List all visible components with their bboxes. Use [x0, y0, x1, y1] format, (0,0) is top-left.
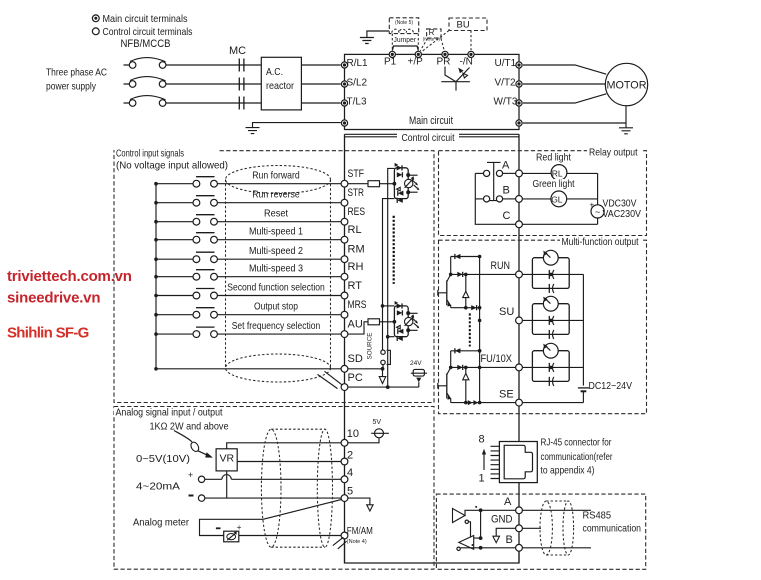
- svg-text:24V: 24V: [410, 360, 422, 367]
- legend main circuit terminal symbol: [92, 15, 99, 22]
- terminal STR: [341, 199, 348, 206]
- DC reactor option dashed box (Note 5): [389, 18, 418, 34]
- svg-text:Reset: Reset: [264, 208, 288, 220]
- svg-text:Analog signal input / output: Analog signal input / output: [116, 406, 223, 418]
- svg-text:Second function selection: Second function selection: [227, 281, 325, 293]
- dotted repetition line (outputs): [469, 313, 471, 346]
- svg-text:5V: 5V: [373, 419, 382, 426]
- label Control input signals: [115, 148, 229, 172]
- svg-text:RL: RL: [552, 168, 563, 178]
- svg-text:Jumper: Jumper: [394, 37, 417, 44]
- left common bus of input switches: [155, 184, 157, 369]
- contactor MC pole 3: [239, 97, 244, 110]
- wire RUN line to bus: [522, 273, 583, 275]
- terminal RL: [341, 236, 348, 243]
- wire common to SD: [154, 367, 341, 371]
- label Three phase AC power supply: [46, 67, 107, 93]
- wire phase R input: [124, 64, 341, 66]
- svg-text:MOTOR: MOTOR: [607, 80, 647, 92]
- svg-text:8: 8: [479, 434, 485, 446]
- wire V/T2 to motor: [523, 83, 606, 85]
- RJ-45 connector: [491, 442, 538, 483]
- analog meter symbol: [216, 523, 242, 542]
- svg-text:+: +: [590, 201, 595, 210]
- transistor FU/SE driver: output wire with diode: [449, 365, 516, 370]
- svg-text:Output stop: Output stop: [254, 301, 298, 313]
- meter loop wiring: [200, 500, 342, 536]
- svg-text:~: ~: [595, 207, 600, 217]
- relay left rail and C row: [475, 173, 515, 224]
- wire phase T input: [124, 102, 341, 104]
- svg-text:U/T1: U/T1: [495, 58, 517, 69]
- svg-text:power supply: power supply: [46, 81, 97, 93]
- svg-text:Three phase AC: Three phase AC: [46, 67, 107, 79]
- current input + terminal: [188, 470, 205, 482]
- source/sink jumper connector: [381, 350, 391, 369]
- common arrow at terminal 5: [348, 498, 373, 511]
- relay contact A side: [475, 170, 515, 176]
- terminal MRS: [341, 311, 348, 318]
- green lamp GL: [551, 191, 598, 207]
- transistor common bus: [478, 257, 482, 403]
- label Relay output: [587, 147, 641, 159]
- svg-text:-/N: -/N: [460, 56, 473, 67]
- relay supply source circle VDC30V/VAC230V: [590, 198, 642, 220]
- svg-text:triviettech.com.vn: triviettech.com.vn: [7, 268, 132, 285]
- terminal W/T3: [516, 100, 522, 106]
- svg-text:1: 1: [479, 473, 485, 485]
- svg-text:4~20mA: 4~20mA: [136, 480, 180, 492]
- terminal SE: [516, 399, 523, 406]
- label Multi-function output: [560, 236, 642, 248]
- A.C. reactor: [261, 57, 301, 110]
- label RS485 communication: [583, 510, 642, 535]
- svg-text:Control input signals: Control input signals: [116, 148, 184, 160]
- VR lower lead down to row 5: [226, 471, 228, 498]
- wire A external: [522, 509, 591, 511]
- brake resistor option dashed box R (Note 6): [423, 28, 441, 43]
- svg-text:(Note 5): (Note 5): [395, 20, 413, 26]
- svg-text:MRS: MRS: [348, 299, 367, 311]
- svg-text:VAC230V: VAC230V: [603, 208, 642, 220]
- terminal RT: [341, 292, 348, 299]
- svg-text:0~5V(10V): 0~5V(10V): [136, 453, 190, 465]
- svg-text:Relay output: Relay output: [589, 147, 638, 159]
- svg-text:RM: RM: [348, 244, 365, 256]
- wire SU line to bus: [522, 319, 583, 321]
- svg-text:RJ-45 connector for: RJ-45 connector for: [541, 437, 612, 449]
- terminal R/L1: [341, 62, 347, 68]
- relay load group FU: [532, 343, 569, 386]
- svg-text:Run reverse: Run reverse: [252, 189, 300, 201]
- RJ-45 pin labels: [479, 434, 487, 485]
- relay contact B side: [475, 196, 515, 202]
- jumper bar P1 to +/P: [392, 46, 418, 51]
- shielded cable ellipses (RS485): [540, 501, 574, 555]
- svg-text:GND: GND: [491, 513, 513, 525]
- terminal A (RS485): [516, 507, 523, 514]
- resistor on STF input: [348, 181, 395, 187]
- svg-text:R/L1: R/L1: [347, 58, 369, 69]
- wire bridge2 bottom to PC rail: [386, 335, 394, 339]
- wire A to red lamp: [522, 172, 551, 174]
- svg-text:BU: BU: [457, 20, 470, 31]
- svg-text:B: B: [506, 534, 513, 546]
- input switch RES (Reset): [154, 215, 341, 225]
- svg-text:P1: P1: [384, 56, 397, 67]
- svg-text:10: 10: [347, 428, 359, 440]
- wire FM/AM down to bottom rail: [344, 539, 346, 563]
- shield drain ribbon to FM/AM: [333, 537, 347, 549]
- multi-function output dashed box: [439, 240, 647, 414]
- battery DC12~24V: [578, 380, 632, 402]
- wire FU line to bus: [522, 366, 583, 368]
- control circuit box: [345, 134, 520, 563]
- svg-text:T/L3: T/L3: [347, 97, 367, 108]
- RS485 internal wiring: [472, 506, 483, 546]
- terminal 4: [341, 476, 348, 483]
- svg-text:DC12~24V: DC12~24V: [589, 380, 633, 392]
- wire GND external stub: [522, 527, 541, 529]
- optocoupler bridge for AU: [393, 301, 420, 341]
- wire B terminal down to bottom rail: [518, 551, 520, 563]
- label RJ-45 connector for communication: [541, 437, 613, 477]
- current input - terminal: [189, 495, 205, 502]
- svg-text:Analog meter: Analog meter: [133, 516, 189, 528]
- svg-text:1KΩ 2W and above: 1KΩ 2W and above: [150, 421, 229, 433]
- svg-text:2: 2: [347, 449, 353, 461]
- terminal FU/10X: [516, 364, 523, 371]
- input switch RT (Second function selection): [154, 289, 341, 299]
- transistor RUN/SU driver: symbol: [438, 257, 452, 308]
- label Analog signal input / output: [114, 406, 266, 418]
- svg-text:C: C: [503, 210, 511, 222]
- terminal C: [516, 221, 523, 228]
- terminal U/T1: [516, 62, 522, 68]
- svg-text:+/P: +/P: [408, 56, 424, 67]
- terminal ground right: [516, 120, 522, 126]
- relay load group RUN: [532, 250, 569, 293]
- svg-text:S/L2: S/L2: [347, 77, 368, 88]
- wire terminal 5 row: [205, 497, 341, 499]
- terminal V/T2: [516, 81, 522, 87]
- svg-text:RH: RH: [348, 261, 364, 273]
- terminal 2: [341, 458, 348, 465]
- ground top-left of main box: [360, 31, 389, 44]
- relay load supply wire: [522, 173, 597, 224]
- transistor FU/SE driver: symbol: [438, 351, 452, 403]
- breaker NFB/MCCB pole 3: [129, 96, 166, 107]
- svg-text:RL: RL: [348, 224, 362, 236]
- svg-text:B: B: [503, 185, 510, 197]
- terminal P1: [389, 51, 395, 57]
- wire VR wiper to terminal 2: [237, 461, 341, 463]
- svg-text:reactor: reactor: [266, 80, 294, 92]
- terminal RUN: [516, 271, 523, 278]
- wire bridge2 top to SD rail: [381, 304, 395, 308]
- wire terminal 4 row with hop: [205, 475, 341, 480]
- relay output dashed box: [439, 151, 647, 236]
- transistor FU/SE driver: bottom wire (SE line): [451, 400, 516, 405]
- shielded cable ellipses (analog): [261, 429, 332, 547]
- 5V internal supply: [348, 419, 389, 443]
- terminal B: [516, 196, 523, 203]
- label Control circuit: [397, 132, 459, 144]
- svg-text:Main circuit terminals: Main circuit terminals: [103, 13, 188, 25]
- svg-text:RS485: RS485: [583, 510, 612, 522]
- svg-text:A.C.: A.C.: [266, 66, 283, 78]
- terminal GND: [516, 525, 523, 532]
- RS485 receiver buffer: [457, 536, 474, 551]
- svg-text:STF: STF: [348, 168, 365, 180]
- svg-text:Multi-speed 1: Multi-speed 1: [249, 226, 303, 238]
- svg-text:STR: STR: [348, 187, 365, 199]
- svg-text:Green light: Green light: [533, 178, 575, 190]
- wire A internal: [481, 509, 516, 511]
- terminal S/L2: [341, 81, 347, 87]
- svg-text:AU: AU: [348, 319, 363, 331]
- svg-text:(Note 4): (Note 4): [347, 539, 367, 545]
- svg-text:FM/AM: FM/AM: [347, 525, 373, 537]
- 24V internal supply: [410, 360, 427, 387]
- terminal AU: [341, 331, 348, 338]
- dashed leads from R box: [420, 39, 444, 51]
- wire bridge top to PC rail: [388, 168, 395, 387]
- relay contact armature: [487, 162, 501, 200]
- breaker NFB/MCCB pole 1: [129, 58, 166, 69]
- input switch MRS (Output stop): [154, 308, 341, 318]
- potentiometer callout arrow: [174, 431, 213, 458]
- terminal PC: [341, 384, 348, 391]
- red lamp RL: [551, 165, 598, 181]
- RS485 driver buffer: [453, 509, 481, 539]
- svg-text:Control circuit terminals: Control circuit terminals: [103, 26, 193, 38]
- label Red light: [535, 151, 572, 163]
- analog signal input/output dashed box: [114, 407, 434, 570]
- svg-text:Set frequency selection: Set frequency selection: [232, 320, 321, 332]
- terminal STF: [341, 180, 348, 187]
- svg-text:4: 4: [347, 467, 353, 479]
- svg-text:Main circuit: Main circuit: [409, 115, 453, 127]
- wire PC terminal to 24V supply: [348, 385, 419, 389]
- transistor FU/SE driver: flyback diode: [463, 367, 469, 402]
- wire W/T3 to motor: [523, 94, 606, 103]
- svg-text:to appendix 4): to appendix 4): [541, 465, 595, 477]
- SD junction dot: [381, 367, 385, 371]
- main circuit box: [345, 54, 520, 129]
- terminal -/N: [468, 51, 474, 57]
- svg-text:RUN: RUN: [491, 260, 511, 272]
- svg-text:sineedrive.vn: sineedrive.vn: [7, 290, 100, 307]
- svg-text:R: R: [429, 28, 435, 37]
- svg-text:SD: SD: [348, 353, 363, 365]
- terminal RH: [341, 273, 348, 280]
- potentiometer VR box: [216, 449, 237, 471]
- svg-text:SE: SE: [499, 388, 514, 400]
- brake transistor inside main box: [441, 67, 470, 91]
- common arrow below SD: [379, 369, 386, 384]
- terminal B (RS485): [516, 544, 523, 551]
- legend control circuit terminal symbol: [92, 28, 99, 35]
- label Green light: [532, 178, 577, 190]
- svg-text:V/T2: V/T2: [495, 77, 517, 88]
- shielded cable ellipse (control inputs): [226, 166, 331, 383]
- svg-text:MC: MC: [229, 45, 246, 57]
- wire bridge bottom to SD rail: [383, 199, 395, 350]
- transistor RUN/SU driver: bottom wire: [451, 305, 482, 310]
- input switch RL (Multi-speed 1): [154, 233, 341, 243]
- svg-text:+: +: [237, 523, 242, 532]
- ground below motor: [619, 123, 633, 134]
- wire B external: [522, 547, 591, 549]
- svg-text:communication: communication: [583, 523, 642, 535]
- svg-text:communication(refer: communication(refer: [541, 451, 613, 463]
- relay load group SU: [532, 296, 569, 339]
- svg-text:SU: SU: [499, 306, 514, 318]
- wire B to green lamp: [522, 198, 551, 200]
- terminal RES: [341, 218, 348, 225]
- terminal +/P: [415, 51, 421, 57]
- terminal PR: [442, 51, 448, 57]
- terminal SU: [516, 317, 523, 324]
- contactor MC pole 2: [239, 78, 244, 91]
- open collector transistor FU/SE driver: top diode wire: [451, 348, 482, 353]
- transistor RUN/SU driver: flyback diode: [463, 274, 469, 307]
- wire B internal: [460, 546, 515, 550]
- svg-text:W/T3: W/T3: [494, 97, 518, 108]
- terminal 10: [341, 439, 348, 446]
- input switch STF (Run forward): [154, 177, 341, 187]
- svg-text:Shihlin SF-G: Shihlin SF-G: [7, 325, 89, 342]
- motor M: [605, 63, 647, 105]
- svg-text:Run forward: Run forward: [252, 170, 300, 182]
- input switch RM (Multi-speed 2): [154, 252, 341, 262]
- breaker NFB/MCCB pole 2: [129, 77, 166, 88]
- input switch STR (Run reverse): [154, 196, 341, 206]
- wire SE line to battery: [522, 402, 583, 404]
- svg-text:A: A: [502, 159, 510, 171]
- shield drain ribbon to PC: [318, 371, 343, 388]
- svg-text:RT: RT: [348, 280, 363, 292]
- input switch RH (Multi-speed 3): [154, 270, 341, 280]
- terminal SD: [341, 365, 348, 372]
- svg-text:A: A: [504, 496, 512, 508]
- svg-text:+: +: [188, 470, 193, 480]
- wire U/T1 to motor: [523, 65, 606, 74]
- svg-text:Multi-speed 2: Multi-speed 2: [249, 245, 303, 257]
- brake unit dashed box BU: [449, 18, 487, 31]
- input switch AU (Set frequency selection): [154, 327, 341, 337]
- contactor MC pole 1: [239, 59, 244, 72]
- RS485 dashed box: [436, 494, 645, 569]
- transistor RUN/SU driver: output wire with diode: [449, 272, 516, 277]
- dashed leads from BU box: [421, 31, 471, 53]
- svg-text:GL: GL: [551, 195, 563, 205]
- svg-text:Multi-function output: Multi-function output: [562, 236, 639, 248]
- resistor on AU input: [348, 319, 395, 334]
- terminal ground left: [341, 120, 347, 126]
- dashed leads from DC reactor box to P1 and +/P: [392, 34, 418, 49]
- wire SD terminal to junction: [348, 368, 383, 370]
- wire ground terminal to motor frame: [523, 106, 626, 123]
- terminal RM: [341, 256, 348, 263]
- control input signals dashed box: [114, 151, 434, 403]
- ground below reactor: [246, 123, 341, 134]
- svg-text:Multi-speed 3: Multi-speed 3: [249, 263, 303, 275]
- wire VR top to terminal 10: [227, 443, 341, 449]
- svg-text:NFB/MCCB: NFB/MCCB: [121, 38, 171, 50]
- svg-text:Control circuit: Control circuit: [402, 132, 455, 144]
- terminal T/L3: [341, 100, 347, 106]
- svg-text:FU/10X: FU/10X: [481, 353, 513, 365]
- svg-text:PC: PC: [348, 372, 363, 384]
- terminal A: [516, 170, 523, 177]
- svg-text:SOURCE: SOURCE: [367, 333, 374, 360]
- svg-text:Red light: Red light: [536, 151, 571, 163]
- GND shield arrow: [493, 528, 516, 542]
- svg-text:RES: RES: [348, 206, 366, 218]
- load supply bus right: [582, 274, 584, 385]
- svg-text:PR: PR: [437, 56, 451, 67]
- svg-text:5: 5: [347, 485, 353, 497]
- dotted repetition line (inputs): [393, 216, 395, 284]
- svg-text:(No voltage input allowed): (No voltage input allowed): [116, 160, 228, 172]
- terminal 5: [341, 495, 348, 502]
- wire phase S input: [124, 83, 341, 85]
- terminal FM/AM: [341, 532, 348, 539]
- svg-text:VR: VR: [220, 453, 235, 465]
- optocoupler bridge for STF: [393, 163, 420, 203]
- open collector transistor RUN/SU driver: top diode wire: [451, 254, 482, 259]
